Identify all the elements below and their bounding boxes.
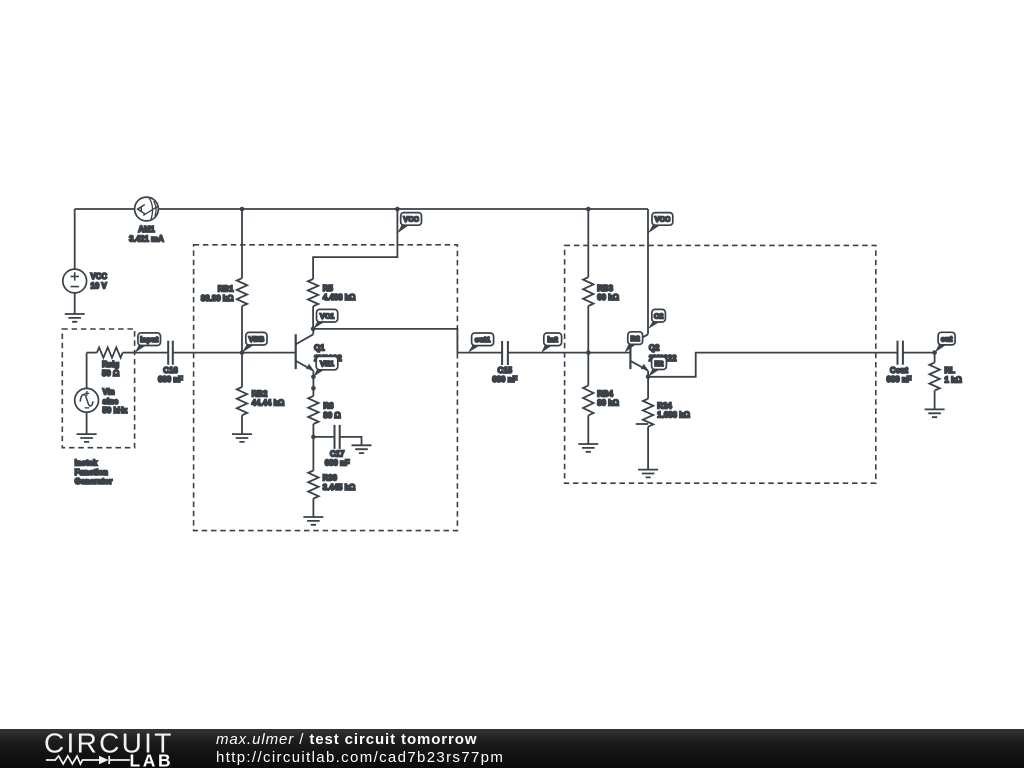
svg-text:RB1: RB1: [218, 285, 234, 294]
node flag out: [935, 332, 956, 352]
svg-text:50 Ω: 50 Ω: [102, 369, 119, 378]
svg-text:10 V: 10 V: [91, 281, 108, 290]
resistor RB3 60k: [583, 209, 619, 353]
resistor Rsig 50ohm: [87, 347, 135, 378]
svg-text:60 kΩ: 60 kΩ: [597, 293, 619, 302]
svg-text:680 nF: 680 nF: [325, 459, 350, 468]
svg-text:out: out: [941, 334, 953, 343]
voltage source VCC 10V: [63, 209, 108, 314]
node flag VCC stage2: [648, 213, 673, 234]
svg-text:VE1: VE1: [320, 359, 334, 368]
svg-text:out1: out1: [475, 335, 491, 344]
svg-text:44.44 kΩ: 44.44 kΩ: [252, 399, 285, 408]
wire VCC2 drop to Q2 collector: [647, 209, 649, 334]
wire stub left of R24: [636, 423, 648, 425]
svg-text:1 kΩ: 1 kΩ: [945, 375, 962, 384]
wire main VCC top rail: [75, 208, 648, 210]
resistor RL 1k: [929, 353, 961, 410]
svg-text:680 nF: 680 nF: [886, 375, 911, 384]
svg-text:Function: Function: [75, 468, 108, 477]
svg-text:80 kΩ: 80 kΩ: [597, 399, 619, 408]
svg-text:1.686 kΩ: 1.686 kΩ: [657, 411, 690, 420]
node flag out1: [468, 333, 494, 353]
resistor R6 80ohm: [308, 377, 340, 471]
svg-text:80 Ω: 80 Ω: [323, 411, 340, 420]
svg-text:VC1: VC1: [320, 311, 334, 320]
resistor RB1 88.89k: [201, 209, 247, 353]
transistor Q2 2N2222: [630, 334, 677, 377]
ground below R30: [303, 517, 323, 525]
svg-text:RB2: RB2: [252, 389, 268, 398]
ground below RB2: [232, 434, 252, 442]
node junction R6-C17: [311, 435, 316, 440]
svg-text:Cout: Cout: [890, 366, 908, 375]
svg-text:Generator: Generator: [75, 477, 113, 486]
svg-text:VCC: VCC: [403, 215, 419, 224]
box amplifier stage 1: [194, 245, 458, 531]
node flag B2: [625, 332, 643, 353]
svg-text:R5: R5: [323, 284, 334, 293]
svg-text:Rsig: Rsig: [102, 360, 119, 369]
svg-text:sine: sine: [103, 397, 119, 406]
node flag C2: [648, 309, 665, 329]
node VBB junction: [240, 350, 245, 355]
node emitter dot above R6: [311, 386, 316, 391]
resistor RB4 80k: [583, 353, 619, 444]
svg-text:AM1: AM1: [138, 225, 155, 234]
node VC1 junction: [311, 327, 316, 332]
svg-text:LAB: LAB: [130, 751, 174, 768]
svg-text:50 kHz: 50 kHz: [103, 406, 128, 415]
node flag in2: [541, 333, 561, 353]
svg-text:C17: C17: [330, 449, 344, 458]
resistor R5 4.488k: [308, 279, 356, 329]
svg-text:C15: C15: [498, 366, 513, 375]
capacitor C15 680nF: [492, 341, 517, 384]
capacitor Cout 680nF: [886, 341, 911, 385]
svg-text:Vin: Vin: [103, 388, 115, 397]
svg-text:3.421 mA: 3.421 mA: [129, 235, 164, 244]
svg-text:in2: in2: [547, 335, 558, 344]
box Instek function generator: [62, 329, 134, 448]
svg-text:Q1: Q1: [314, 344, 325, 353]
svg-text:680 nF: 680 nF: [492, 375, 517, 384]
capacitor C16 680nF: [158, 341, 183, 385]
resistor R24 1.686k: [643, 377, 690, 470]
node flag VC1: [313, 309, 338, 329]
ground below RL: [925, 409, 945, 417]
svg-text:input: input: [140, 335, 159, 344]
svg-text:C16: C16: [163, 366, 178, 375]
node flag VBB: [242, 332, 267, 352]
node E2 junction: [646, 375, 651, 380]
svg-text:RB4: RB4: [597, 389, 613, 398]
capacitor C17 680nF: [313, 425, 361, 468]
wire VCC1 drop to R5: [313, 209, 397, 279]
box amplifier stage 2: [565, 245, 876, 483]
node flag input: [135, 333, 161, 353]
ground right of C17: [352, 445, 372, 453]
node flag VCC stage1: [397, 213, 421, 234]
node flag VE1: [313, 356, 337, 376]
svg-text:C2: C2: [654, 311, 663, 320]
ammeter AM1: [129, 197, 164, 243]
svg-text:3.445 kΩ: 3.445 kΩ: [323, 483, 356, 492]
resistor R30 3.445k: [308, 471, 355, 518]
svg-text:B2: B2: [630, 334, 639, 343]
svg-text:E2: E2: [654, 359, 663, 368]
wire C15 to Q2 base: [508, 352, 631, 354]
label Instek Function Generator: [75, 459, 113, 487]
source Vin sine 50kHz: [75, 353, 128, 435]
wire C16 to Q1 base through VBB: [173, 352, 296, 354]
svg-text:RL: RL: [945, 366, 956, 375]
logo resistor-diode glyph: [46, 756, 130, 765]
node junction rail-RB1: [240, 207, 245, 212]
ground below Vin: [77, 434, 97, 442]
wire VC1 to out1: [313, 329, 502, 353]
svg-text:680 nF: 680 nF: [158, 375, 183, 384]
wire Cout to out node: [903, 352, 935, 354]
svg-text:VBB: VBB: [249, 334, 265, 343]
transistor Q1 2N2222: [296, 329, 343, 377]
svg-text:R30: R30: [323, 474, 338, 483]
svg-text:R24: R24: [657, 401, 672, 410]
svg-text:VCC: VCC: [655, 215, 671, 224]
node out junction: [932, 350, 937, 355]
node junction base-RB3RB4: [586, 350, 591, 355]
svg-text:RB3: RB3: [597, 284, 613, 293]
node junction rail-RB3: [586, 207, 591, 212]
node VE1 junction: [311, 375, 316, 380]
svg-text:4.488 kΩ: 4.488 kΩ: [323, 293, 356, 302]
node junction rail-VCC1: [395, 207, 400, 212]
resistor RB2 44.44k: [237, 353, 284, 435]
svg-text:R6: R6: [323, 402, 334, 411]
wire input to C16: [135, 352, 168, 354]
svg-text:Instek: Instek: [75, 459, 98, 468]
node flag E2: [648, 357, 666, 377]
svg-text:Q2: Q2: [649, 344, 660, 353]
ground below R24: [638, 470, 658, 478]
svg-text:VCC: VCC: [91, 272, 108, 281]
ground below RB4: [578, 444, 598, 452]
ground below VCC source: [65, 314, 85, 322]
svg-text:88.89 kΩ: 88.89 kΩ: [201, 294, 234, 303]
wire E2 to Cout: [648, 353, 897, 377]
